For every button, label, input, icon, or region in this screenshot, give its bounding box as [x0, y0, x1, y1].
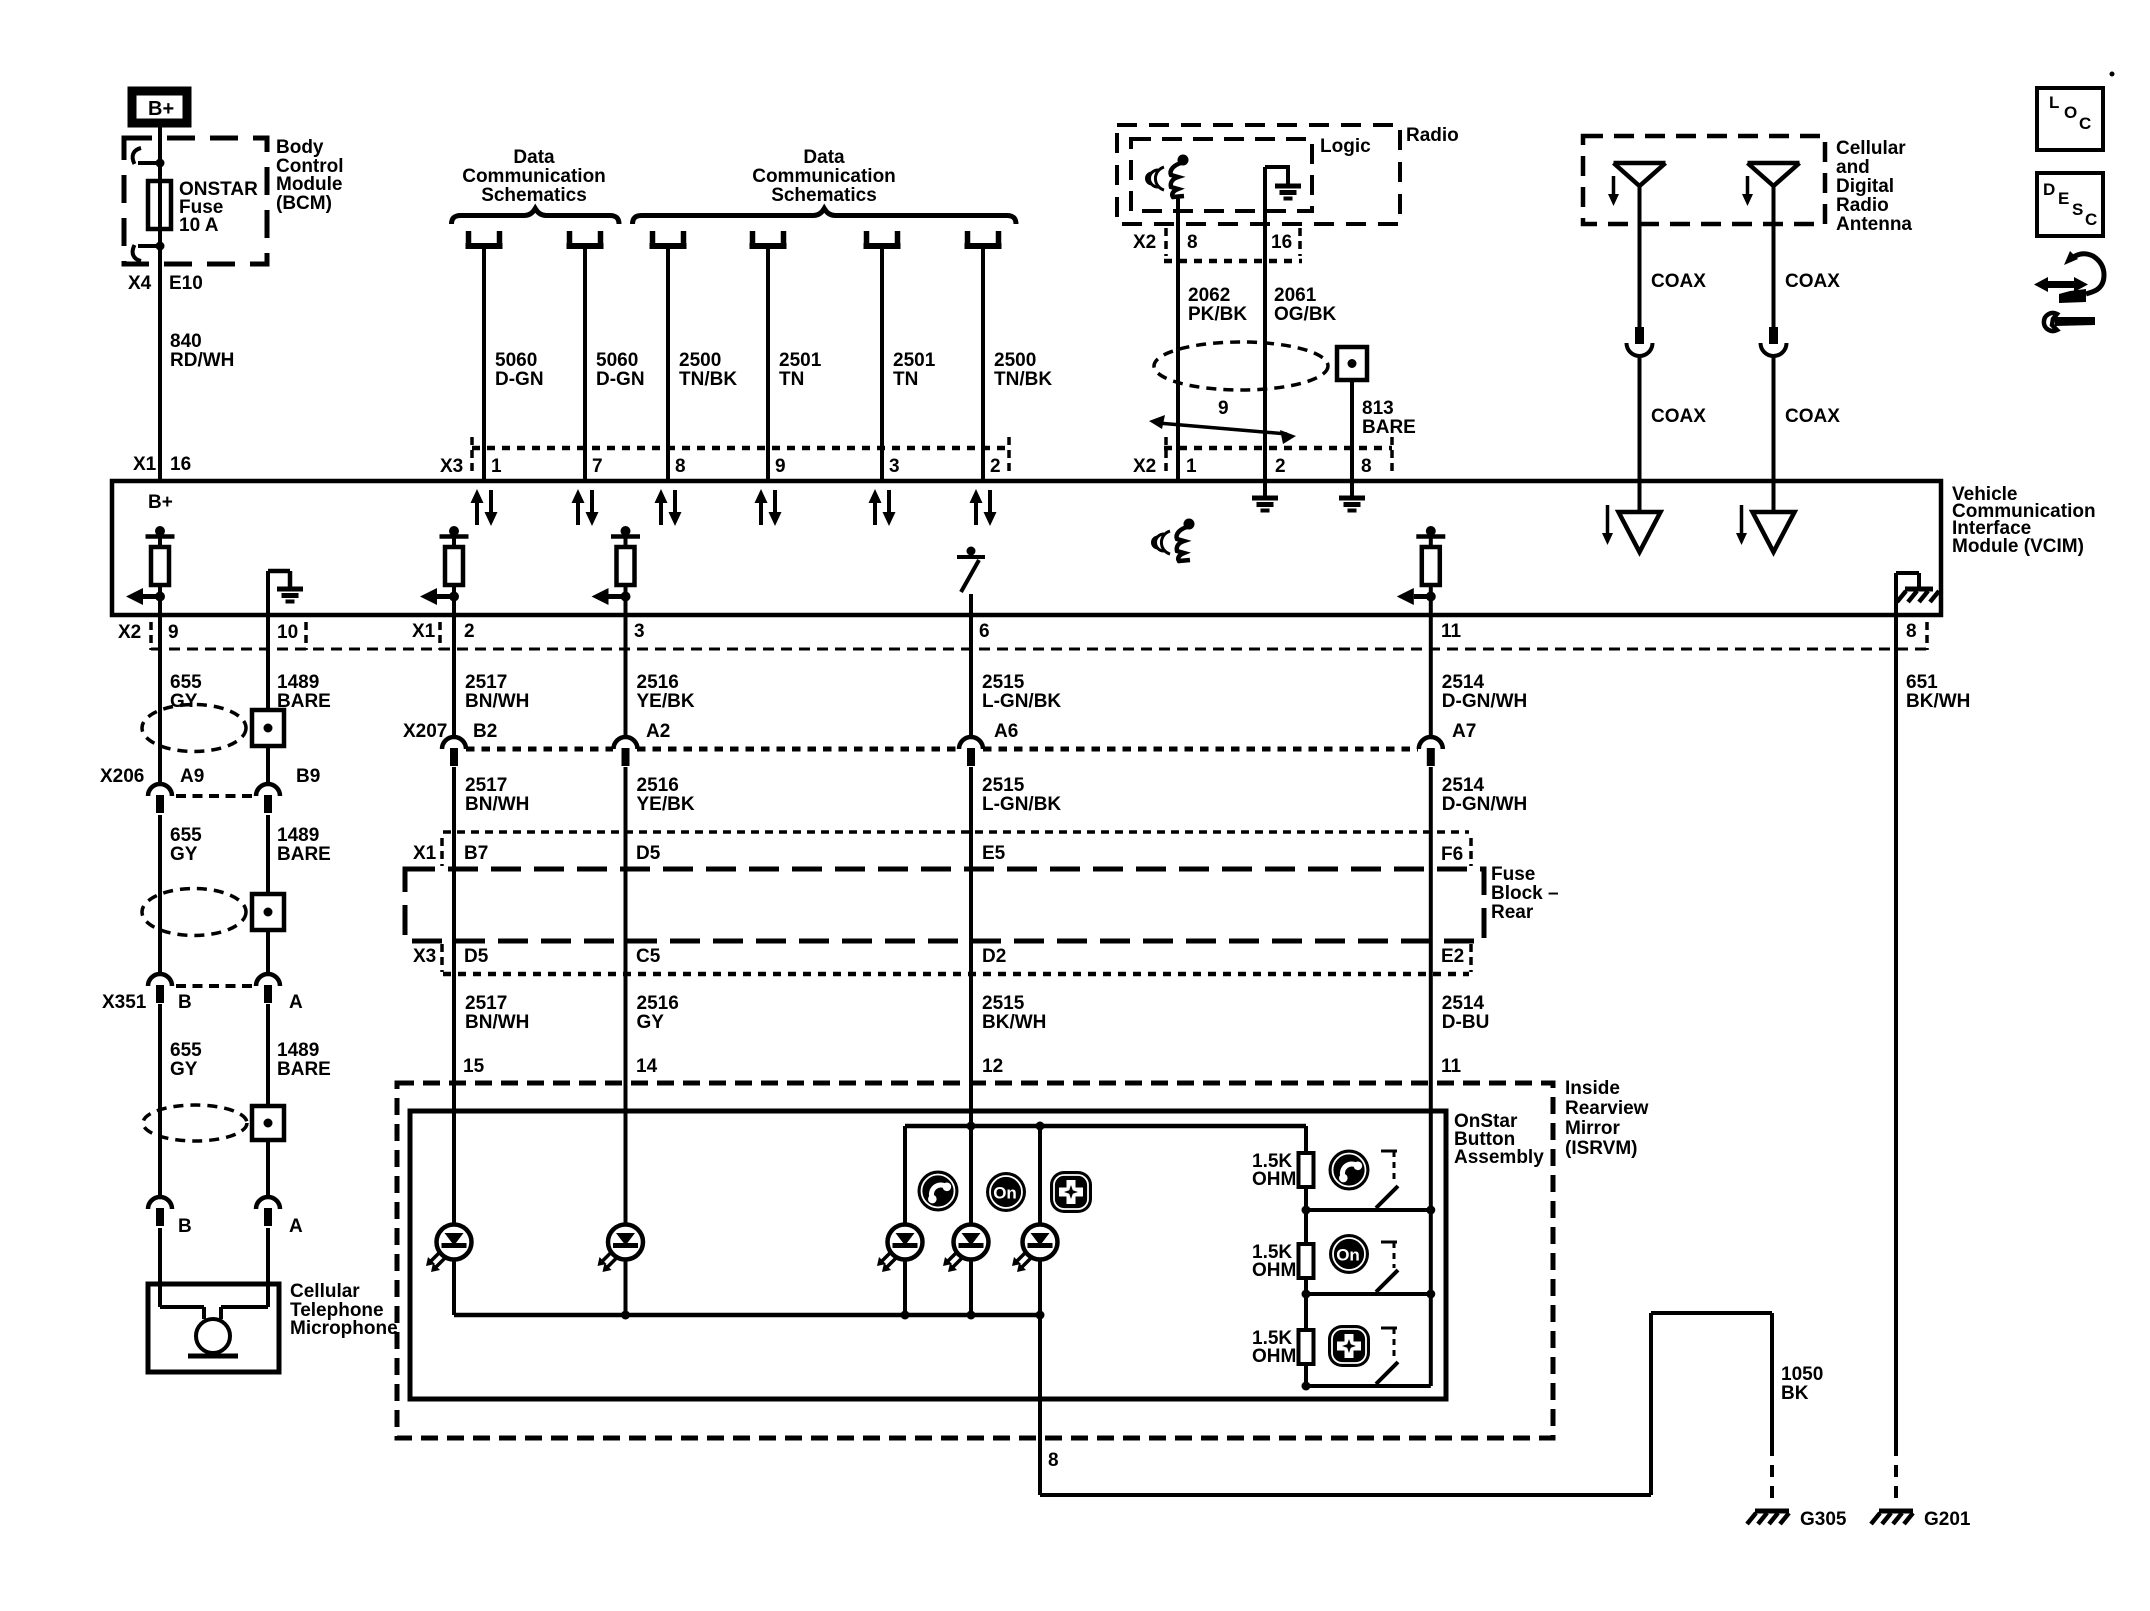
svg-text:X2: X2: [1133, 232, 1156, 253]
svg-text:S: S: [2072, 200, 2083, 219]
svg-text:E2: E2: [1441, 946, 1464, 967]
svg-text:1489: 1489: [277, 672, 319, 693]
svg-text:Data: Data: [513, 147, 555, 168]
svg-text:COAX: COAX: [1785, 406, 1840, 427]
svg-text:G201: G201: [1924, 1509, 1971, 1530]
svg-text:X1: X1: [412, 621, 436, 642]
svg-text:1050: 1050: [1781, 1364, 1823, 1385]
svg-text:840: 840: [170, 331, 202, 352]
svg-text:E10: E10: [169, 273, 203, 294]
svg-text:3: 3: [634, 621, 645, 642]
svg-text:D: D: [2043, 180, 2055, 199]
svg-text:L-GN/BK: L-GN/BK: [982, 794, 1061, 815]
svg-text:8: 8: [1906, 621, 1917, 642]
svg-text:B+: B+: [148, 98, 174, 120]
svg-text:OHM: OHM: [1252, 1346, 1296, 1367]
svg-text:C5: C5: [636, 946, 661, 967]
svg-text:D-GN/WH: D-GN/WH: [1442, 691, 1527, 712]
svg-text:O: O: [2064, 103, 2077, 122]
svg-text:Communication: Communication: [462, 166, 606, 187]
svg-text:Inside: Inside: [1565, 1078, 1620, 1099]
svg-text:X2: X2: [118, 622, 141, 643]
svg-text:2516: 2516: [637, 993, 679, 1014]
svg-text:TN/BK: TN/BK: [679, 369, 737, 390]
svg-text:2515: 2515: [982, 672, 1025, 693]
svg-text:YE/BK: YE/BK: [637, 794, 695, 815]
svg-text:655: 655: [170, 1040, 202, 1061]
svg-text:Schematics: Schematics: [771, 185, 877, 206]
svg-text:2517: 2517: [465, 993, 507, 1014]
svg-text:D-GN: D-GN: [495, 369, 544, 390]
svg-text:BK: BK: [1781, 1383, 1809, 1404]
svg-text:D-GN/WH: D-GN/WH: [1442, 794, 1527, 815]
svg-text:BN/WH: BN/WH: [465, 794, 529, 815]
svg-text:3: 3: [889, 456, 900, 477]
svg-text:2515: 2515: [982, 775, 1025, 796]
svg-text:Block –: Block –: [1491, 883, 1559, 904]
svg-text:BN/WH: BN/WH: [465, 691, 529, 712]
svg-text:X207: X207: [403, 721, 447, 742]
svg-text:11: 11: [1441, 1056, 1462, 1077]
svg-text:1489: 1489: [277, 1040, 319, 1061]
svg-text:and: and: [1836, 157, 1870, 178]
svg-text:Assembly: Assembly: [1454, 1147, 1544, 1168]
svg-text:9: 9: [1218, 398, 1229, 419]
svg-text:655: 655: [170, 672, 202, 693]
svg-text:Antenna: Antenna: [1836, 214, 1912, 235]
svg-text:TN: TN: [779, 369, 804, 390]
svg-text:2514: 2514: [1442, 993, 1485, 1014]
svg-text:11: 11: [1441, 621, 1462, 642]
svg-text:2516: 2516: [637, 775, 679, 796]
svg-text:12: 12: [982, 1056, 1003, 1077]
svg-text:2500: 2500: [679, 350, 721, 371]
svg-text:1: 1: [491, 456, 502, 477]
svg-text:Data: Data: [803, 147, 845, 168]
svg-text:D5: D5: [636, 843, 661, 864]
svg-text:X3: X3: [440, 456, 463, 477]
svg-text:6: 6: [979, 621, 990, 642]
svg-text:BARE: BARE: [277, 1059, 331, 1080]
svg-text:GY: GY: [637, 1012, 665, 1033]
svg-text:A2: A2: [646, 721, 670, 742]
svg-text:5060: 5060: [596, 350, 638, 371]
svg-text:2: 2: [1275, 456, 1286, 477]
svg-text:OHM: OHM: [1252, 1260, 1296, 1281]
svg-text:OHM: OHM: [1252, 1169, 1296, 1190]
svg-text:8: 8: [1361, 456, 1372, 477]
svg-text:X1: X1: [413, 843, 437, 864]
svg-text:1489: 1489: [277, 825, 319, 846]
svg-text:5060: 5060: [495, 350, 537, 371]
svg-text:GY: GY: [170, 1059, 198, 1080]
svg-text:A6: A6: [994, 721, 1018, 742]
svg-text:10 A: 10 A: [179, 215, 219, 236]
svg-text:C: C: [2085, 210, 2097, 229]
svg-text:X206: X206: [100, 766, 144, 787]
svg-text:PK/BK: PK/BK: [1188, 304, 1247, 325]
svg-text:B: B: [178, 992, 192, 1013]
svg-text:1: 1: [1186, 456, 1197, 477]
svg-text:2: 2: [990, 456, 1001, 477]
svg-text:TN/BK: TN/BK: [994, 369, 1052, 390]
svg-text:E5: E5: [982, 843, 1006, 864]
svg-text:Fuse: Fuse: [1491, 864, 1535, 885]
svg-text:X4: X4: [128, 273, 152, 294]
svg-text:B7: B7: [464, 843, 488, 864]
svg-text:X2: X2: [1133, 456, 1156, 477]
svg-text:Digital: Digital: [1836, 176, 1894, 197]
svg-text:C: C: [2079, 114, 2091, 133]
svg-text:Cellular: Cellular: [1836, 138, 1906, 159]
svg-text:OG/BK: OG/BK: [1274, 304, 1337, 325]
svg-text:8: 8: [1187, 232, 1198, 253]
svg-text:L: L: [2049, 93, 2059, 112]
svg-text:GY: GY: [170, 691, 198, 712]
svg-text:813: 813: [1362, 398, 1394, 419]
svg-text:YE/BK: YE/BK: [637, 691, 695, 712]
svg-text:8: 8: [675, 456, 686, 477]
svg-text:Cellular: Cellular: [290, 1281, 360, 1302]
svg-text:RD/WH: RD/WH: [170, 350, 234, 371]
svg-text:D-GN: D-GN: [596, 369, 645, 390]
svg-text:Microphone: Microphone: [290, 1318, 398, 1339]
svg-text:2: 2: [464, 621, 475, 642]
svg-text:E: E: [2058, 189, 2069, 208]
svg-text:2517: 2517: [465, 672, 507, 693]
svg-text:2516: 2516: [637, 672, 679, 693]
svg-text:8: 8: [1048, 1450, 1059, 1471]
svg-text:Module (VCIM): Module (VCIM): [1952, 536, 2084, 557]
svg-text:COAX: COAX: [1785, 271, 1840, 292]
svg-text:GY: GY: [170, 844, 198, 865]
svg-text:COAX: COAX: [1651, 271, 1706, 292]
svg-text:9: 9: [168, 622, 179, 643]
svg-text:Module: Module: [276, 174, 343, 195]
svg-text:B9: B9: [296, 766, 320, 787]
svg-text:A: A: [289, 1216, 303, 1237]
svg-text:2514: 2514: [1442, 775, 1485, 796]
svg-text:D5: D5: [464, 946, 489, 967]
svg-text:X351: X351: [102, 992, 147, 1013]
svg-text:X1: X1: [133, 454, 157, 475]
svg-text:2062: 2062: [1188, 285, 1230, 306]
svg-text:F6: F6: [1441, 844, 1463, 865]
svg-text:Rearview: Rearview: [1565, 1098, 1649, 1119]
svg-text:BN/WH: BN/WH: [465, 1012, 529, 1033]
svg-text:D-BU: D-BU: [1442, 1012, 1490, 1033]
svg-text:BK/WH: BK/WH: [1906, 691, 1970, 712]
svg-text:On: On: [1336, 1246, 1360, 1265]
svg-text:651: 651: [1906, 672, 1938, 693]
svg-text:G305: G305: [1800, 1509, 1847, 1530]
svg-text:Radio: Radio: [1836, 195, 1889, 216]
svg-text:On: On: [993, 1184, 1017, 1203]
svg-text:A9: A9: [180, 766, 204, 787]
svg-text:2514: 2514: [1442, 672, 1485, 693]
svg-text:2515: 2515: [982, 993, 1025, 1014]
svg-text:B+: B+: [148, 492, 173, 513]
svg-text:D2: D2: [982, 946, 1006, 967]
svg-text:7: 7: [592, 456, 603, 477]
svg-text:COAX: COAX: [1651, 406, 1706, 427]
svg-text:2061: 2061: [1274, 285, 1317, 306]
svg-text:16: 16: [170, 454, 191, 475]
svg-text:16: 16: [1271, 232, 1292, 253]
svg-text:BARE: BARE: [277, 844, 331, 865]
svg-text:B: B: [178, 1216, 192, 1237]
svg-text:2500: 2500: [994, 350, 1036, 371]
svg-text:(ISRVM): (ISRVM): [1565, 1138, 1637, 1159]
svg-text:Mirror: Mirror: [1565, 1118, 1621, 1139]
svg-text:BARE: BARE: [1362, 417, 1416, 438]
svg-text:L-GN/BK: L-GN/BK: [982, 691, 1061, 712]
svg-text:2501: 2501: [893, 350, 936, 371]
svg-text:14: 14: [636, 1056, 658, 1077]
svg-text:655: 655: [170, 825, 202, 846]
svg-text:9: 9: [775, 456, 786, 477]
svg-text:2517: 2517: [465, 775, 507, 796]
svg-text:Logic: Logic: [1320, 136, 1371, 157]
svg-text:Body: Body: [276, 137, 324, 158]
svg-text:TN: TN: [893, 369, 918, 390]
svg-text:10: 10: [277, 622, 298, 643]
svg-text:Schematics: Schematics: [481, 185, 587, 206]
svg-text:2501: 2501: [779, 350, 822, 371]
svg-text:BK/WH: BK/WH: [982, 1012, 1046, 1033]
svg-text:Radio: Radio: [1406, 125, 1459, 146]
svg-text:15: 15: [463, 1056, 485, 1077]
svg-text:B2: B2: [473, 721, 497, 742]
svg-text:X3: X3: [413, 946, 436, 967]
svg-text:Communication: Communication: [752, 166, 896, 187]
svg-text:Rear: Rear: [1491, 902, 1534, 923]
svg-text:A: A: [289, 992, 303, 1013]
svg-text:(BCM): (BCM): [276, 193, 332, 214]
svg-text:A7: A7: [1452, 721, 1476, 742]
